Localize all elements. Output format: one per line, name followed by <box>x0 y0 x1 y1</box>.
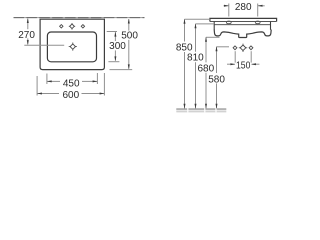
fixing hole left (front) <box>226 21 231 24</box>
tap hole detail: centre diamond <box>239 44 247 52</box>
basin underside outline with legs and trap (front) <box>214 30 271 38</box>
svg-text:270: 270 <box>18 30 35 41</box>
tap hole centre (plan) <box>69 23 75 30</box>
drain centre mark (plan) <box>69 43 77 51</box>
svg-text:450: 450 <box>63 79 80 90</box>
wall line (plan view rear wall) <box>14 17 145 19</box>
rim slab (front view) <box>210 18 277 21</box>
dimension 280 (fixing holes distance) <box>224 4 265 17</box>
dimension 150 (tap hole spacing) <box>227 51 259 64</box>
floor line with hatch band <box>176 108 226 112</box>
height dimension 580 (floor to tap detail line) <box>217 47 230 108</box>
dimension 270 (wall to drain centre) <box>24 19 64 46</box>
svg-text:600: 600 <box>62 90 79 101</box>
basin bowl (plan view) <box>47 32 96 62</box>
dimension 600 (overall width) <box>37 73 104 96</box>
washbasin outer rim (plan view) <box>40 19 104 69</box>
tap hole right (plan) <box>81 25 84 28</box>
dimension 450 (bowl width) <box>47 73 98 84</box>
fixing hole right (front) <box>255 21 260 24</box>
svg-text:300: 300 <box>109 41 126 52</box>
height dimension 810 (floor to fixing holes) <box>196 24 215 108</box>
dimension 500 (overall depth) <box>110 19 133 70</box>
tap hole left (plan) <box>60 25 63 28</box>
tap hole detail: left small diamond <box>233 46 237 50</box>
body sides + groove (front) <box>214 22 270 30</box>
dimension 300 (bowl depth) <box>107 32 120 62</box>
svg-text:500: 500 <box>121 31 138 42</box>
svg-text:580: 580 <box>208 75 225 86</box>
svg-text:280: 280 <box>235 2 252 13</box>
svg-text:150: 150 <box>236 60 250 71</box>
height dimension 850 (floor to rim) <box>185 19 210 108</box>
tap hole detail: right small diamond <box>249 46 253 50</box>
svg-text:680: 680 <box>197 63 214 74</box>
svg-text:810: 810 <box>187 53 204 64</box>
height dimension 680 (floor to basin bottom) <box>206 37 220 108</box>
